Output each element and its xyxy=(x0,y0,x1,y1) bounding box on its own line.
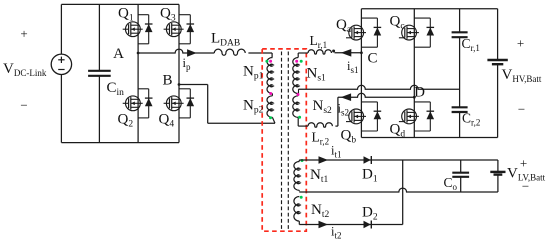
svg-text:C: C xyxy=(367,51,377,67)
svg-text:D: D xyxy=(414,84,425,100)
svg-text:+: + xyxy=(517,36,524,51)
svg-text:−: − xyxy=(20,98,27,113)
svg-text:A: A xyxy=(113,46,124,62)
svg-text:B: B xyxy=(162,73,172,89)
svg-text:+: + xyxy=(20,26,27,41)
svg-text:−: − xyxy=(518,102,525,117)
svg-text:+: + xyxy=(520,156,527,171)
svg-text:−: − xyxy=(522,179,529,194)
